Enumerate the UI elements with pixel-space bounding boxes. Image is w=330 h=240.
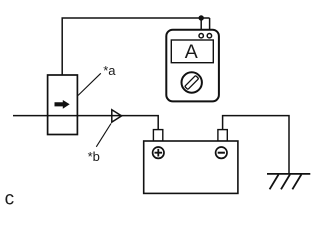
wire drop to meter left terminal [200,18,202,34]
flow direction triangle *b [112,110,122,122]
junction dot [199,15,204,20]
battery positive post [153,130,162,142]
ground symbol [267,174,310,189]
battery minus terminal mark [216,147,227,158]
arrow inside probe [55,100,70,109]
leader line to *b [96,124,111,147]
svg-text:c: c [5,189,15,210]
battery negative post [218,130,227,142]
ammeter body [166,30,219,102]
ammeter selector knob [182,72,202,92]
battery plus terminal mark [153,147,164,158]
wire battery minus to ground [223,116,289,173]
ammeter left terminal [199,34,203,38]
svg-text:*a: *a [103,63,116,78]
leader line to *a [78,73,101,95]
main wire through probe to battery plus [13,116,158,130]
svg-text:A: A [185,41,198,63]
ammeter display window [171,40,213,63]
component *a box (current probe) [48,75,78,135]
svg-text:*b: *b [88,149,100,164]
ammeter right terminal [207,34,211,38]
wire top from probe to meter [62,18,209,75]
battery body [144,141,238,193]
wire drop to meter right terminal [209,18,211,34]
